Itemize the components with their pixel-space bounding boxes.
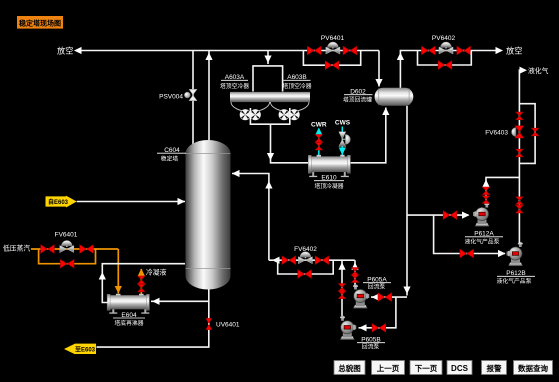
- valve: P605B discharge gate valve 1: [338, 284, 345, 292]
- svg-text:数据查询: 数据查询: [518, 363, 548, 373]
- valve: steam right gate valve: [80, 245, 94, 254]
- wire: FV6403 bypass: [519, 104, 535, 164]
- valve: P605A discharge gate valve 2: [351, 275, 358, 283]
- svg-text:放空: 放空: [506, 46, 522, 56]
- svg-text:至E603: 至E603: [75, 346, 96, 354]
- heat exchanger E610: [308, 155, 350, 177]
- valve: FV6402 left gate valve: [282, 256, 296, 265]
- svg-text:自E603: 自E603: [48, 198, 69, 206]
- valve UV6401: [206, 318, 212, 329]
- node: flow arrow left at FV6402 corner: [272, 257, 280, 264]
- node: arrow up on E604 return: [99, 272, 106, 280]
- button DCS: [447, 361, 472, 375]
- node: arrow up P605A discharge: [351, 262, 358, 270]
- label C604: [157, 147, 186, 163]
- pump P605B: [340, 316, 356, 340]
- label P605A: [363, 277, 391, 291]
- control valve PV6402: [439, 42, 453, 54]
- node: arrow up on P612A discharge: [482, 180, 489, 188]
- valve: FV6403 lower gate valve: [516, 149, 523, 157]
- wire: E604 vapor return to tower: [102, 264, 185, 303]
- wire: PV6402 header to vent: [421, 50, 496, 52]
- wire: CWS line: [341, 127, 343, 156]
- button 上一页: [372, 361, 405, 375]
- svg-text:PV6402: PV6402: [432, 35, 456, 42]
- node: arrow up P605B discharge: [338, 262, 345, 270]
- wire: D602 vapor riser x=400.4: [400, 51, 421, 88]
- valve: FV6402 right gate valve: [315, 256, 329, 265]
- valve: FV6402 bypass gate valve: [298, 270, 312, 279]
- wire: PV6402 bypass: [418, 51, 472, 66]
- node: arrow down into D602: [375, 79, 382, 87]
- valve: PV6402 bypass gate valve: [438, 61, 452, 70]
- svg-text:塔底再沸器: 塔底再沸器: [115, 319, 144, 327]
- wire: tower bottom drop x=208.8: [97, 289, 209, 347]
- wire: reflux into tower top right y=173.5: [232, 174, 269, 261]
- wire: drop to D602 x=379: [378, 51, 380, 87]
- column C604: [186, 140, 231, 290]
- wire: P612A suction branch: [407, 214, 469, 216]
- node: steam arrow down into E604: [115, 286, 122, 294]
- svg-text:UV6401: UV6401: [216, 322, 240, 329]
- wire: P605B suction: [359, 297, 396, 328]
- valve: FV6403 bypass gate valve: [531, 128, 538, 136]
- wire: P612B suction branch: [434, 215, 505, 253]
- node: vent arrow right: [496, 47, 504, 54]
- pump P612A: [473, 203, 489, 227]
- heat exchanger E604: [107, 294, 149, 314]
- svg-text:稳定塔: 稳定塔: [161, 155, 179, 163]
- node: arrow down: [264, 56, 271, 64]
- valve: CWR gate valve lower: [315, 142, 322, 150]
- label P612B: [497, 270, 535, 285]
- control valve PV6401: [326, 42, 340, 54]
- node: arrow left into tower: [232, 170, 240, 177]
- vessel D602: [375, 88, 414, 106]
- node: CWS arrow down: [339, 148, 346, 156]
- wire: drop to E610: [271, 124, 309, 163]
- wire: P605A discharge riser: [354, 260, 356, 288]
- valve: P612A suction gate valve: [443, 211, 457, 220]
- wire: E610 outlet to D602: [351, 108, 386, 163]
- svg-text:塔顶冷凝器: 塔顶冷凝器: [315, 182, 344, 190]
- wire: steam drop into E604: [117, 249, 119, 294]
- wire: P605A suction: [371, 296, 407, 298]
- wire: PSV line x=193: [192, 51, 194, 146]
- button 数据查询: [514, 361, 553, 375]
- wire: top vent header y=50.5: [81, 50, 379, 52]
- label D602: [343, 89, 373, 104]
- relief valve PSV004: [184, 89, 197, 100]
- button 下一页: [410, 361, 442, 375]
- bottom tag 至E603: [64, 344, 96, 355]
- valve: P612A discharge gate valve 2: [482, 196, 489, 204]
- svg-text:回流泵: 回流泵: [362, 343, 380, 351]
- button 报警: [482, 361, 507, 375]
- wire: air cooler inlet header: [253, 66, 283, 92]
- node: CWR arrow up: [315, 128, 322, 136]
- wire: tower bottoms to E604 feed: [151, 300, 209, 302]
- svg-text:低压蒸汽: 低压蒸汽: [3, 244, 30, 253]
- node: feed arrow into tower: [178, 198, 186, 205]
- label P612A: [465, 231, 503, 246]
- node: LPG arrow right: [520, 67, 528, 74]
- svg-text:CWS: CWS: [335, 120, 351, 127]
- svg-text:FV6402: FV6402: [294, 246, 317, 253]
- node: condensate arrow up: [138, 269, 145, 277]
- fan 1: [240, 109, 251, 120]
- pump P612B: [507, 242, 523, 266]
- node: vent arrow left: [74, 47, 82, 54]
- wire: tower overhead vapor riser x=209: [208, 51, 210, 141]
- node: arrow right into P612B: [498, 250, 506, 257]
- fan 4: [289, 109, 300, 120]
- svg-text:液化气产品泵: 液化气产品泵: [497, 277, 532, 285]
- svg-text:放空: 放空: [57, 46, 73, 56]
- svg-text:塔顶空冷器: 塔顶空冷器: [220, 82, 249, 90]
- svg-text:液化气产品泵: 液化气产品泵: [465, 238, 500, 246]
- svg-text:下一页: 下一页: [415, 364, 438, 373]
- svg-text:FV6401: FV6401: [55, 232, 78, 239]
- valve: FV6403 upper gate valve: [516, 112, 523, 120]
- valve: P612A discharge gate valve 1: [482, 187, 489, 195]
- svg-text:报警: 报警: [487, 363, 502, 373]
- svg-text:总貌图: 总貌图: [338, 363, 361, 373]
- valve PV6401 group: left gate valve: [307, 46, 321, 55]
- valve: P605B discharge gate valve 2: [338, 291, 345, 299]
- svg-text:液化气: 液化气: [528, 66, 549, 75]
- label A603B: [283, 74, 312, 90]
- fan 2: [250, 109, 261, 120]
- valve: P612B discharge gate valve 2: [516, 205, 523, 213]
- valve: P605B suction gate valve: [372, 324, 386, 333]
- wire: CWR line: [318, 129, 320, 155]
- button 总貌图: [334, 361, 365, 375]
- feed tag 自E603: [46, 196, 77, 208]
- valve: steam bypass gate valve: [60, 259, 74, 268]
- fan 3: [279, 109, 290, 120]
- node: arrow left into P605A: [372, 294, 380, 301]
- wire: D602 bottoms drop x=407: [406, 106, 408, 296]
- valve: steam left gate valve: [41, 245, 55, 254]
- wire: air cooler outlets: [250, 108, 289, 124]
- control valve FV6401: [60, 241, 74, 253]
- label A603A: [220, 74, 249, 90]
- label E604: [113, 312, 145, 327]
- node: arrow down before E610: [267, 153, 274, 161]
- svg-text:DCS: DCS: [451, 364, 469, 373]
- svg-text:塔顶空冷器: 塔顶空冷器: [283, 82, 312, 90]
- svg-text:塔顶回流罐: 塔顶回流罐: [343, 96, 372, 104]
- valve: P612B discharge gate valve 1: [516, 197, 523, 205]
- svg-text:冷凝液: 冷凝液: [146, 268, 167, 277]
- wire: P612B discharge riser / FV6403 line: [519, 70, 521, 243]
- valve: condensate gate valve upper: [138, 276, 145, 284]
- wire: FV6402 bypass: [278, 260, 334, 274]
- valve PV6402 left gate valve: [422, 46, 436, 55]
- wire: air cooler feed drop x=268: [267, 51, 269, 64]
- pump P605A: [353, 285, 369, 309]
- valve PV6401 right gate valve: [343, 46, 357, 55]
- label E610: [314, 175, 344, 191]
- wire: steam main line: [31, 248, 118, 250]
- valve: P612B suction gate valve: [460, 249, 474, 258]
- node: arrow up at reflux riser top: [265, 181, 272, 189]
- valve: CWS control valve with side ball: [339, 132, 351, 147]
- wire: P612A discharge riser: [486, 177, 519, 203]
- control valve FV6403: [512, 126, 524, 138]
- node: arrow up into header: [205, 53, 212, 61]
- label P605B: [357, 337, 385, 351]
- node: arrow down at bottom of drop: [403, 287, 410, 295]
- wire: FV6402 main line: [269, 259, 355, 261]
- title tag 稳定塔现场图: [17, 16, 63, 29]
- node: arrow up at header: [397, 53, 404, 61]
- node: arrow left into P605B: [359, 324, 367, 331]
- svg-text:PSV004: PSV004: [159, 93, 183, 100]
- svg-text:CWR: CWR: [311, 122, 327, 129]
- node: arrow up into D602 bottom: [382, 108, 389, 116]
- wire: condensate riser: [140, 269, 142, 295]
- svg-text:PV6401: PV6401: [321, 35, 345, 42]
- wire: P605B discharge riser: [341, 260, 343, 317]
- valve: P605A discharge gate valve 1: [351, 268, 358, 276]
- valve: PV6401 bypass gate valve: [325, 61, 339, 70]
- node: arrow left into E604: [152, 298, 160, 305]
- valve: P605A suction gate valve: [378, 293, 392, 302]
- wire: feed line into tower y=201: [77, 201, 185, 203]
- svg-text:回流泵: 回流泵: [368, 283, 386, 291]
- valve PV6402 right gate valve: [457, 46, 471, 55]
- node: arrow right into P612A: [462, 212, 470, 219]
- svg-text:FV6403: FV6403: [485, 130, 508, 137]
- control valve FV6402: [298, 252, 312, 264]
- valve: CWR gate valve upper: [315, 135, 322, 143]
- wire: steam bypass: [39, 249, 96, 264]
- wire: PV6401 bypass: [303, 51, 360, 66]
- svg-text:稳定塔现场图: 稳定塔现场图: [19, 19, 61, 28]
- svg-text:上一页: 上一页: [377, 363, 400, 373]
- valve: condensate gate valve lower: [138, 284, 145, 292]
- air cooler A603A/B body: [230, 92, 310, 112]
